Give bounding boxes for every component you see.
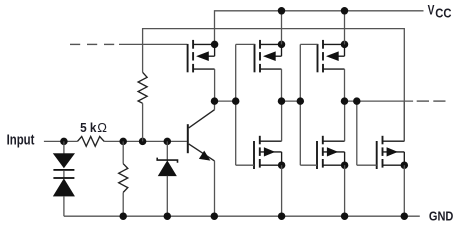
svg-text:Input: Input [7, 133, 35, 149]
svg-text:V: V [428, 2, 435, 17]
svg-text:Ω: Ω [97, 120, 107, 135]
svg-text:5 k: 5 k [80, 121, 97, 135]
svg-text:CC: CC [435, 5, 451, 20]
svg-text:GND: GND [429, 209, 454, 224]
